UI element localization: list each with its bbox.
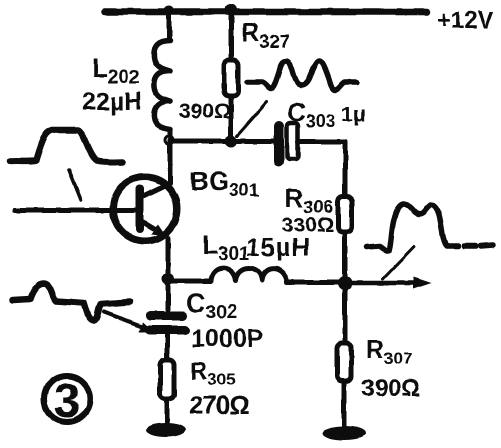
svg-text:R306: R306	[285, 185, 333, 217]
svg-text:22µH: 22µH	[82, 88, 142, 116]
svg-text:L202: L202	[92, 53, 140, 88]
svg-text:1000P: 1000P	[191, 325, 263, 353]
svg-text:L301: L301	[202, 230, 250, 265]
svg-text:C302: C302	[186, 288, 237, 323]
svg-text:R307: R307	[366, 336, 412, 368]
svg-text:390Ω: 390Ω	[179, 100, 231, 123]
svg-text:15µH: 15µH	[246, 234, 310, 262]
svg-text:R327: R327	[241, 17, 290, 52]
svg-text:+12V: +12V	[437, 7, 494, 34]
svg-text:3: 3	[54, 375, 81, 428]
svg-text:C303 1µ: C303 1µ	[287, 97, 365, 131]
svg-text:270Ω: 270Ω	[189, 390, 249, 420]
svg-text:BG301: BG301	[190, 166, 259, 200]
svg-text:390Ω: 390Ω	[361, 375, 420, 402]
svg-text:R305: R305	[190, 358, 236, 389]
